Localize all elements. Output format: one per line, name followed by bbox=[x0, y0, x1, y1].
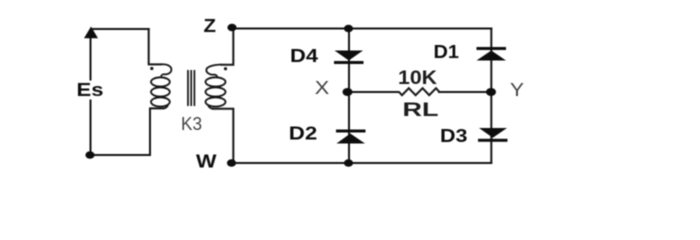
wire bottom of source loop bbox=[90, 154, 150, 156]
svg-text:D1: D1 bbox=[434, 42, 460, 62]
svg-text:X: X bbox=[315, 78, 330, 98]
diode D3 bbox=[478, 128, 508, 142]
diode D2 bbox=[336, 130, 366, 144]
wire primary top lead bbox=[149, 29, 161, 64]
label RL (resistor name) bbox=[403, 100, 440, 121]
junction dot top rail bbox=[344, 25, 353, 33]
node Z dot bbox=[227, 24, 236, 32]
wire right bridge branch bbox=[490, 29, 492, 163]
label Y (node Y) bbox=[510, 80, 524, 100]
junction dot at source bottom bbox=[85, 151, 94, 159]
label D4 bbox=[290, 46, 318, 66]
label 10K (resistor value) bbox=[398, 68, 437, 89]
label K3 bbox=[181, 114, 202, 134]
label D2 bbox=[289, 123, 318, 143]
node W dot bbox=[227, 159, 236, 167]
resistor RL zigzag bbox=[399, 88, 440, 95]
wire top of source loop bbox=[91, 28, 149, 30]
svg-text:RL: RL bbox=[403, 100, 440, 121]
wire resistor to node Y bbox=[439, 91, 491, 93]
wire left bridge branch bbox=[348, 29, 350, 164]
label Z bbox=[204, 16, 217, 36]
svg-text:D3: D3 bbox=[440, 126, 468, 146]
svg-text:K3: K3 bbox=[181, 114, 202, 134]
svg-text:10K: 10K bbox=[398, 68, 437, 89]
svg-text:D4: D4 bbox=[290, 46, 318, 66]
wire left vertical of source loop (upper) bbox=[90, 36, 92, 80]
svg-text:Y: Y bbox=[510, 80, 524, 100]
diode D1 bbox=[477, 47, 507, 61]
voltage source arrow head bbox=[84, 27, 98, 39]
wire bottom rail W to bridge bbox=[232, 162, 492, 164]
svg-text:Z: Z bbox=[204, 16, 217, 36]
diode D4 bbox=[334, 51, 364, 65]
wire secondary top lead (node Z to coil) bbox=[222, 28, 234, 65]
node X dot bbox=[343, 88, 353, 96]
wire node X to resistor bbox=[348, 91, 399, 93]
transformer K3 primary coil bbox=[151, 64, 171, 108]
label D3 bbox=[440, 126, 468, 146]
svg-text:W: W bbox=[196, 152, 217, 172]
junction dot bottom rail bbox=[344, 159, 353, 167]
label X (node X) bbox=[315, 78, 330, 98]
wire primary bottom lead bbox=[150, 108, 163, 155]
transformer primary phasing dot bbox=[150, 67, 153, 70]
transformer core bbox=[188, 70, 194, 106]
label W bbox=[196, 152, 217, 172]
transformer secondary phasing dot bbox=[224, 67, 227, 70]
node Y dot bbox=[486, 88, 496, 96]
wire left vertical of source loop (lower) bbox=[90, 101, 92, 156]
label D1 bbox=[434, 42, 460, 62]
transformer K3 secondary coil bbox=[206, 65, 226, 109]
wire top rail Z to bridge bbox=[232, 28, 491, 30]
wire secondary bottom lead (coil to node W) bbox=[214, 109, 234, 163]
label Es bbox=[77, 80, 104, 100]
svg-text:Es: Es bbox=[77, 80, 104, 100]
svg-text:D2: D2 bbox=[289, 123, 318, 143]
